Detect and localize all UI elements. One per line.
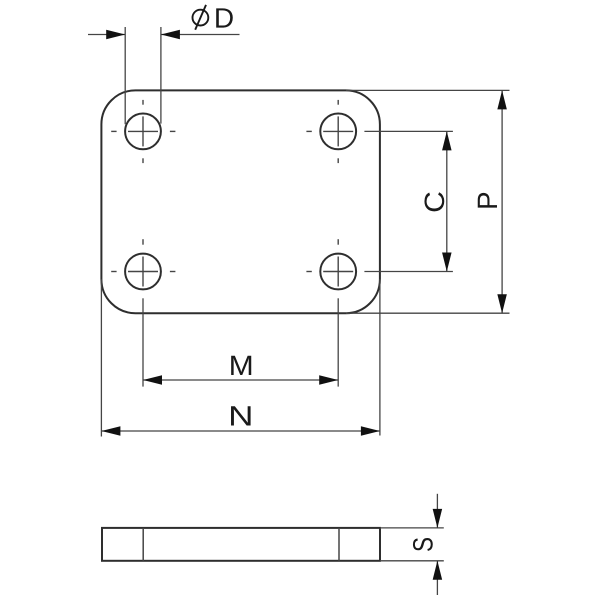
- centerlines hole bottom-left: [111, 239, 175, 286]
- arrow C top: [442, 131, 452, 150]
- side view plate outline: [102, 528, 380, 561]
- dimension line M: [143, 379, 338, 381]
- arrow P bottom: [497, 294, 507, 313]
- arrow N right: [361, 426, 380, 436]
- hole top-left: [125, 113, 161, 149]
- label N: [231, 406, 251, 425]
- label P (rotated): [478, 193, 497, 208]
- arrow D right: [161, 30, 180, 40]
- label S (rotated): [413, 538, 433, 551]
- arrow M right: [319, 375, 338, 385]
- arrow S top: [433, 509, 443, 528]
- label diameter symbol: [193, 5, 209, 30]
- hole bottom-right: [320, 254, 356, 290]
- dimension line S top shaft: [436, 494, 438, 528]
- arrow C bottom: [442, 253, 452, 272]
- label M: [231, 356, 251, 375]
- extension lines N (plate side edges extended down): [101, 279, 380, 436]
- arrow P top: [497, 90, 507, 109]
- extension lines diameter D: [125, 27, 161, 124]
- centerlines hole top-right: [306, 100, 353, 163]
- arrow S bottom: [433, 561, 443, 580]
- dimension line P: [501, 90, 503, 313]
- centerlines hole top-left: [111, 100, 175, 163]
- centerlines hole bottom-right: [306, 239, 353, 286]
- dimension line D with tails: [88, 34, 240, 36]
- dimension line C: [446, 131, 448, 271]
- plate outline (plan view, rounded rectangle): [101, 90, 380, 313]
- dimension line N: [101, 430, 380, 432]
- extension lines P (top and bottom edge overruns): [346, 90, 510, 313]
- side view hole lines: [143, 528, 339, 561]
- hole bottom-left: [125, 254, 161, 290]
- label C (rotated): [424, 192, 444, 211]
- arrow N left: [101, 426, 120, 436]
- arrow D left: [106, 30, 125, 40]
- label D: [216, 8, 233, 27]
- hole top-right: [320, 113, 356, 149]
- extension lines C: [364, 131, 453, 271]
- extension lines S (edge overruns right): [380, 528, 444, 561]
- extension lines M (from bottom holes down): [143, 298, 338, 386]
- dimension line S bottom shaft: [436, 561, 438, 595]
- arrow M left: [143, 375, 162, 385]
